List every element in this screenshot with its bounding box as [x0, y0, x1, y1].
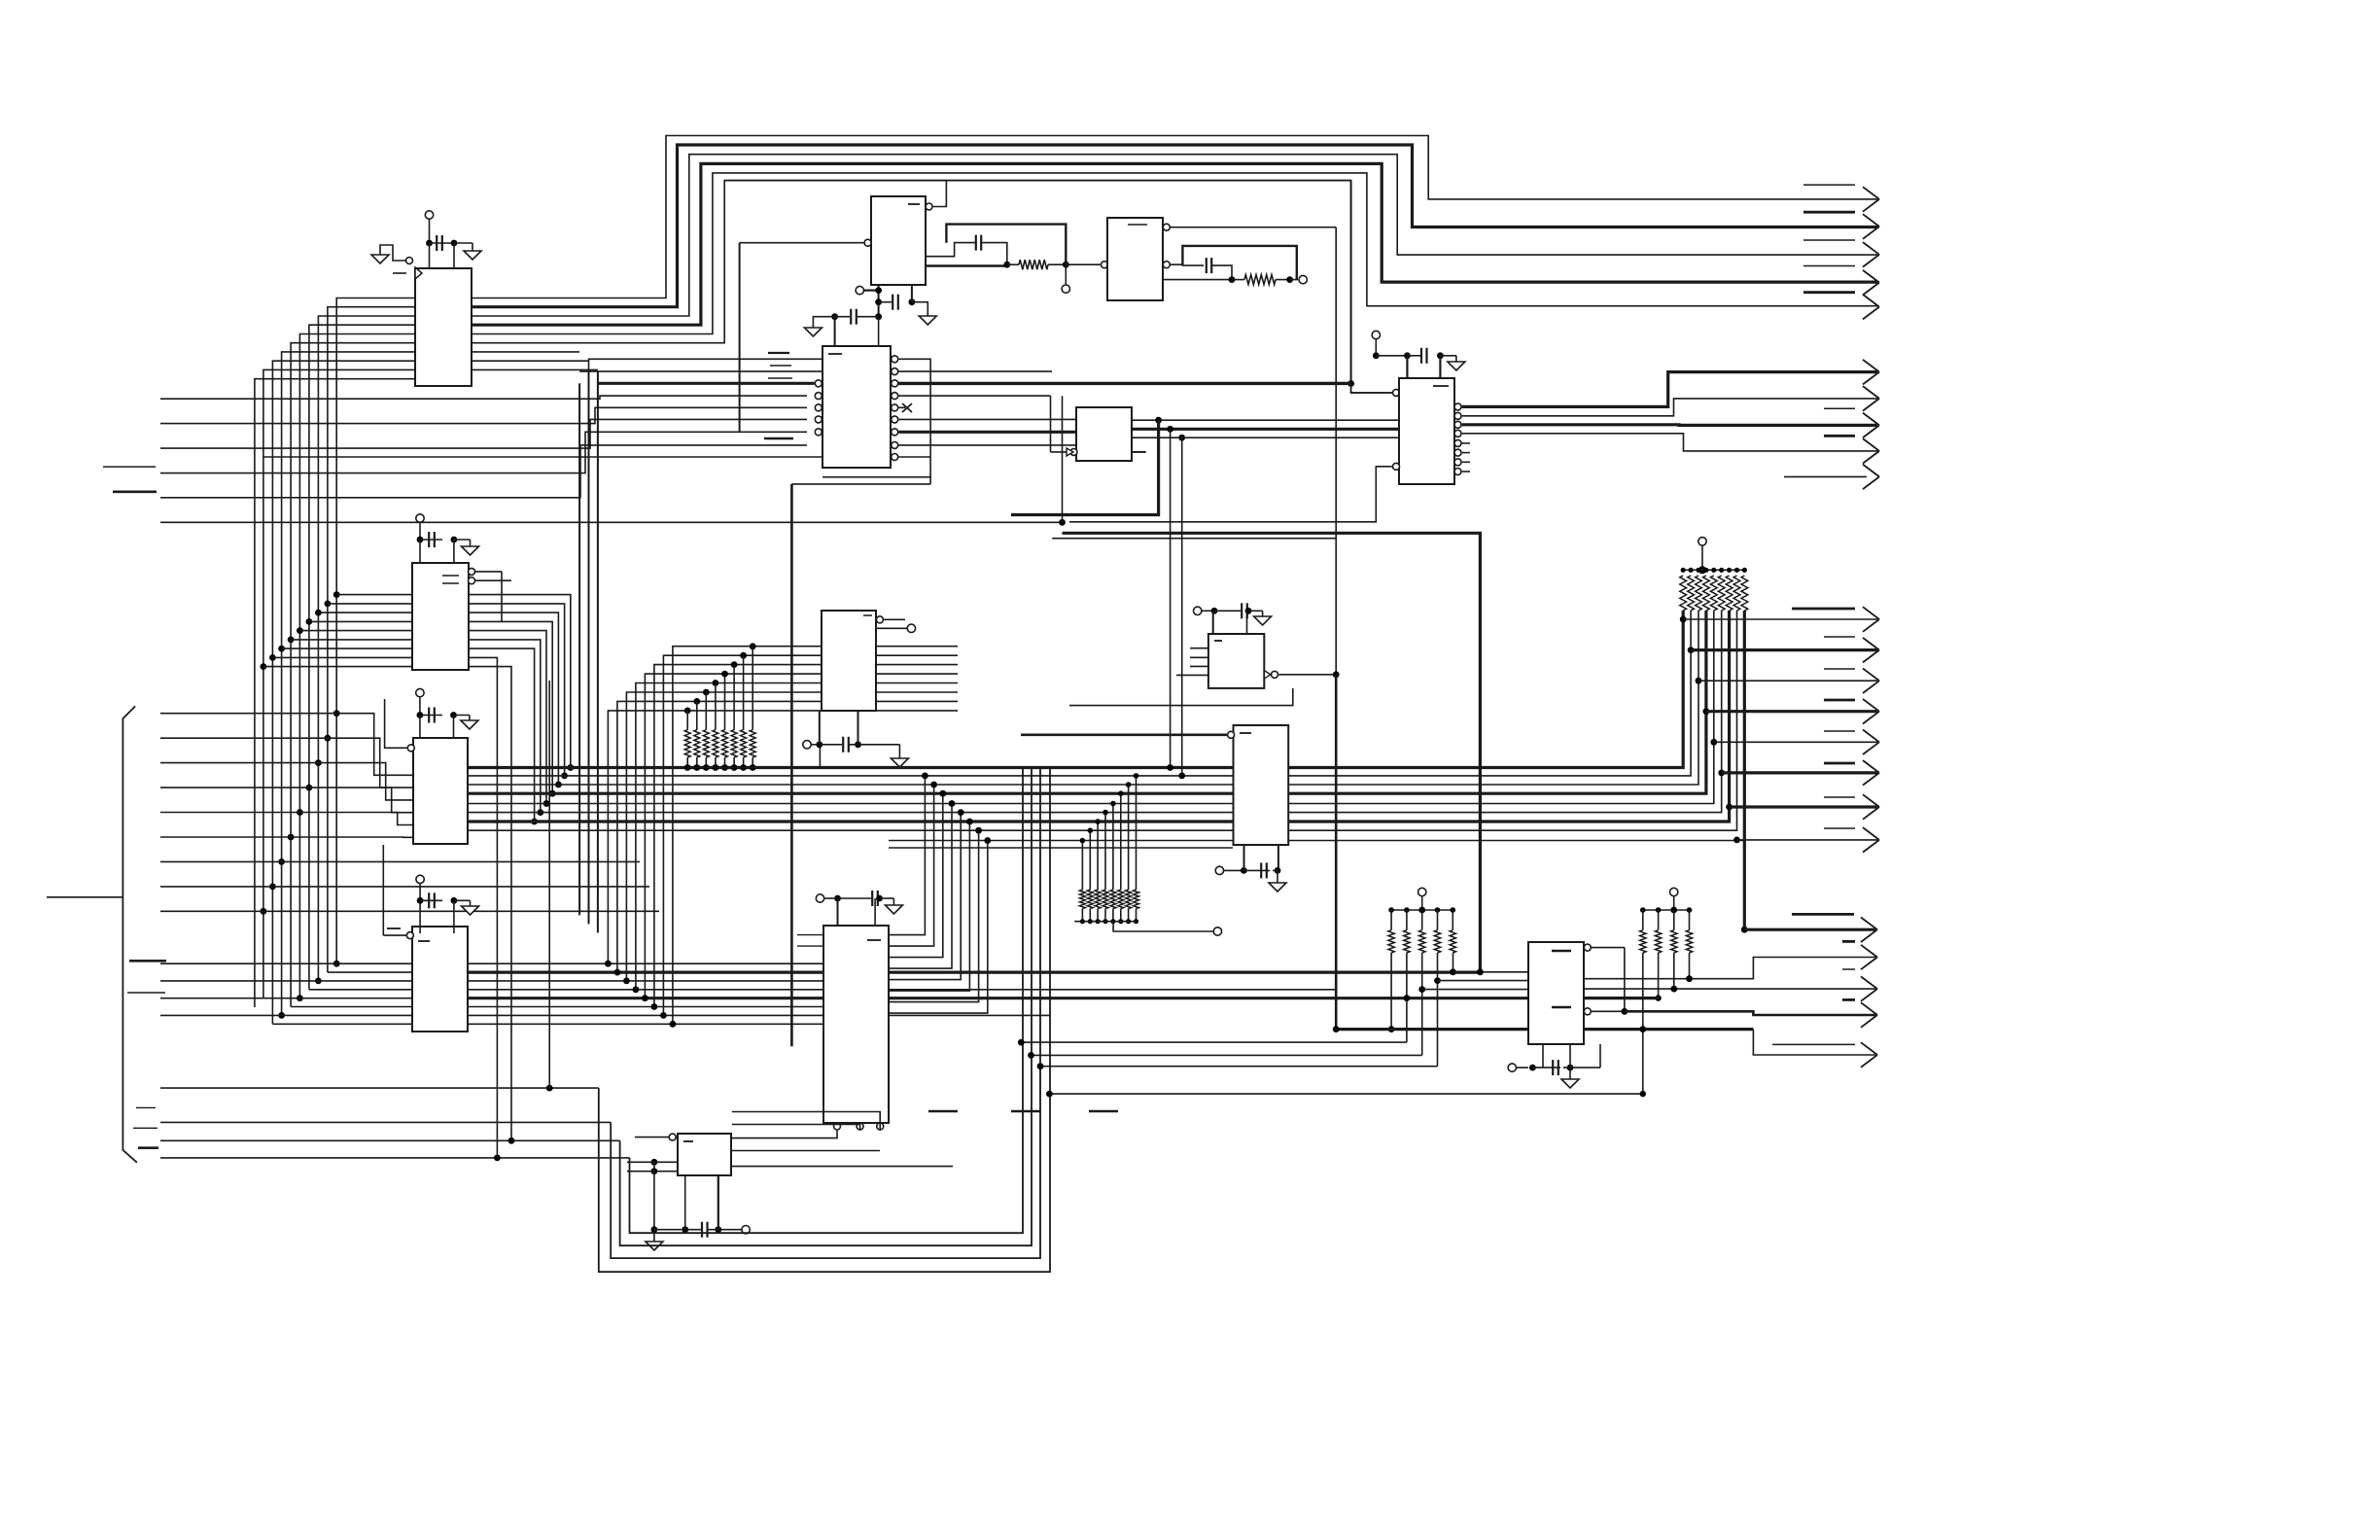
wire RN4-2 stem: [1406, 910, 1408, 930]
wire U5 out7 thick: [898, 431, 1076, 434]
wire U10 east row 5: [1287, 611, 1714, 804]
IC U8: [1399, 378, 1454, 484]
RN3 bottom leg 8: [1134, 909, 1138, 925]
wire C7 legs: [1407, 356, 1440, 378]
wire U14 right row5: [732, 1166, 953, 1168]
wire U3 out 6 to bundle: [469, 640, 541, 813]
wire U5 out2: [898, 370, 1052, 372]
capacitor C11: [834, 891, 893, 906]
junction RN5-2: [1655, 995, 1661, 1000]
wire B1 to U3 pin 1: [336, 594, 412, 596]
junction B1/U3 row 8: [269, 654, 276, 661]
U5 right pin 9: [892, 454, 898, 461]
U8 out pin 4: [1454, 430, 1877, 451]
wire U8 top thick: [891, 382, 1351, 385]
wire bus HB row 1: [468, 766, 1233, 769]
junction B1/connector row 3: [315, 759, 322, 766]
resistor RN3-5: [1110, 890, 1116, 909]
junction bundle row 1: [567, 764, 574, 771]
wire B1 to U3 pin 2: [328, 603, 412, 605]
RN2 top dot 6: [1719, 568, 1724, 573]
wire RN4-2 drop: [1406, 953, 1408, 1042]
U8 out pin 1: [1454, 372, 1877, 410]
wire mid arrow 7: [1730, 794, 1879, 820]
RN2 top dot 9: [1742, 568, 1747, 573]
RN1 bottom leg 4: [713, 757, 719, 771]
resistor RN2-3: [1696, 576, 1702, 611]
RN2 top dot 2: [1689, 568, 1694, 573]
resistor R1: [1019, 260, 1048, 269]
net label bot2: [1842, 940, 1855, 943]
wire mid arrow 8: [1737, 827, 1880, 853]
wire band row 2 west: [328, 971, 412, 973]
wire connector row 4: [160, 787, 309, 788]
wire B1 to U3 pin 9: [263, 666, 412, 668]
wire U1 pin6 to bus B1 line 6: [291, 343, 415, 1007]
wire U7 out stub 6: [876, 691, 958, 693]
wire top bus line6: [724, 180, 1350, 182]
capacitor C7 terminal: [1372, 331, 1380, 356]
wire U5 out3 thick: [898, 382, 1350, 385]
resistor RN3-1: [1079, 890, 1085, 909]
wire RN4-3 drop: [1418, 953, 1425, 1055]
resistor RN1-3: [703, 730, 709, 757]
U6 input: [1051, 396, 1078, 456]
RN2 top dot 8: [1734, 568, 1739, 573]
wire RN5-2 stem: [1658, 910, 1660, 930]
wire U6 drop1 thick: [1011, 420, 1159, 514]
wire U5 out1 wrap: [898, 359, 930, 484]
wire U1 pin9 to bus B1 line 9: [263, 369, 415, 998]
U12 left pin: [387, 928, 413, 939]
U14 left pin top: [635, 1134, 676, 1140]
wire U10 vcc legs: [1244, 845, 1278, 870]
U8 label: [1433, 385, 1449, 387]
junction bundle row 6: [537, 809, 543, 816]
wire connector row 8: [160, 886, 272, 888]
arrow out5: [1863, 295, 1879, 320]
wire U1 pin10 to bus B1 line 10: [255, 379, 415, 1007]
wire U13 out 7: [889, 830, 979, 1001]
arrow bot2 head: [1861, 945, 1877, 969]
U13 bottom pin 1: [732, 1123, 841, 1138]
RN3 bottom leg 3: [1096, 909, 1101, 925]
wire U7 out stub 2: [876, 654, 958, 656]
resistor RN3-3: [1095, 890, 1101, 909]
U9 label: [1214, 640, 1222, 642]
wire U7 out stub 1: [876, 646, 958, 647]
wire connector row 7 east: [282, 860, 640, 862]
wire U6a label: [1128, 224, 1147, 226]
junction bottom row 4: [494, 1155, 501, 1162]
wire x1374 thick drop: [1335, 675, 1338, 1030]
wire connector row 8 east: [272, 886, 649, 888]
capacitor C12: [651, 1222, 751, 1238]
net label: [1803, 211, 1855, 214]
wire mid arrow 2: [1691, 638, 1879, 663]
wire grid column 1: [608, 711, 822, 963]
wire U1 out 4 to arrow: [472, 163, 1877, 325]
U8 out stub 5: [1454, 439, 1470, 446]
capacitor C7: [1373, 348, 1456, 364]
resistor RN1-1: [684, 730, 690, 757]
U15 top-right pin: [1584, 944, 1625, 1011]
junction bundle row 2: [561, 773, 568, 780]
junction U13 out 7: [975, 827, 982, 834]
wire U13 out 6: [889, 822, 969, 991]
wire bus HB row 3: [468, 784, 1233, 786]
junction B1/U3 row 7: [278, 646, 285, 652]
wire U1 pin2 to bus B1 line 2: [328, 307, 415, 972]
wire U5 out8: [898, 444, 1076, 446]
wire U14 right row4: [732, 1150, 880, 1152]
wire U6a out pin: [1163, 262, 1204, 268]
RN2 terminal: [1698, 538, 1706, 575]
wire bus HB row 7: [468, 820, 1233, 822]
wire U3 out 9: [469, 667, 514, 1144]
ground for C2: [462, 546, 479, 555]
resistor RN3-8: [1134, 890, 1139, 909]
U1 vcc wire: [429, 243, 431, 268]
net label mid2: [1824, 636, 1855, 638]
junction RN5-1: [1640, 1091, 1646, 1097]
junction U13 out 8: [984, 837, 991, 844]
U7 right pin2: [876, 624, 916, 632]
RN5 top dot 2: [1656, 907, 1662, 913]
wire low row B: [1028, 1052, 1422, 1059]
wire U3 out 2 to bundle: [469, 604, 565, 776]
wire RN3-4 top: [1104, 813, 1106, 891]
wire y553 thin: [1052, 538, 1336, 540]
wire RN3-5 top: [1112, 804, 1114, 891]
capacitor C14 terminal: [1215, 866, 1241, 874]
junction RN5-3: [1671, 986, 1677, 992]
capacitor C8: [875, 285, 927, 316]
wire U5 wrap lower: [822, 476, 930, 478]
wire bus B2 line 2: [588, 371, 590, 924]
U7 top-right pin: [876, 616, 905, 623]
U5 left pin 4: [815, 393, 822, 400]
IC U10: [1234, 725, 1289, 845]
wire R2 wires: [1232, 279, 1290, 281]
resistor RN4-2: [1404, 930, 1410, 953]
junction RN2 arrow 8: [1733, 837, 1740, 844]
wire RN1-5 stem: [724, 674, 726, 730]
wire U5 out5 nc: [898, 403, 912, 412]
RN4 top dot 2: [1404, 907, 1410, 913]
RN3 terminal: [1213, 927, 1221, 935]
wire C2 left leg: [419, 540, 421, 563]
wire low row D: [1046, 1091, 1643, 1098]
wire x1092 riser: [1062, 396, 1064, 522]
capacitor C6: [1207, 258, 1211, 273]
net label U5d: [764, 437, 793, 439]
wire U6 stub: [1132, 451, 1146, 453]
wire grid column 6: [654, 665, 822, 1007]
RN5 top rail: [1643, 909, 1690, 911]
junction grid column 4: [633, 986, 640, 993]
junction bottom row 1: [546, 1085, 553, 1092]
RN2 top dot 7: [1727, 568, 1732, 573]
junction RN2 arrow 6: [1718, 770, 1725, 777]
junction B1/U3 row 6: [288, 637, 295, 644]
wire U1 pin7 to bus B1 line 7: [282, 352, 415, 1016]
junction B1 line 5 bottom: [297, 995, 303, 1001]
junction U13 out 5: [958, 809, 964, 816]
net label mid3: [1824, 668, 1855, 670]
wire U1 out 9 to B2: [472, 368, 598, 370]
wire U13 out 1: [889, 776, 925, 935]
U10 label: [1240, 732, 1251, 734]
wire connector row 1: [160, 713, 336, 715]
net label: [103, 466, 156, 468]
junction B1 line 1 bottom: [333, 961, 340, 967]
wire U6a out lower: [1163, 279, 1232, 281]
wire U10 east row 8: [1287, 611, 1737, 830]
RN1 top dot 4: [713, 680, 719, 686]
net label bot4: [1842, 998, 1855, 1001]
wire B1 to U3 pin 3: [318, 612, 412, 613]
wire bot arrow1: [1744, 918, 1877, 943]
wire U1 out 3 to arrow: [472, 155, 1877, 316]
ground for C9: [804, 328, 822, 336]
arrow out4: [1863, 270, 1879, 296]
wire U2 bottom pin A: [878, 285, 880, 317]
junction RN2 arrow 4: [1703, 708, 1710, 715]
wire center drop x814: [791, 484, 930, 1046]
wire U2 top-right pin: [926, 181, 946, 210]
U8 pin1 circle: [1393, 389, 1400, 396]
capacitor C4 terminal: [416, 875, 424, 900]
U3 top-right pins: [442, 568, 511, 622]
wire connector bottom row 1: [160, 1087, 599, 1089]
junction RN5-4: [1686, 976, 1692, 982]
RN2 top rail: [1683, 569, 1744, 571]
capacitor C10: [816, 737, 899, 758]
net label mid1: [1792, 608, 1855, 611]
wire U5 in9: [262, 456, 822, 458]
wire U2 out3 upper path: [926, 243, 975, 257]
IC U15: [1528, 942, 1584, 1044]
U8 out stub 8: [1454, 469, 1470, 475]
wire band row 5 east: [468, 997, 1528, 999]
resistor RN4-1: [1388, 930, 1394, 953]
junction U13 out 6: [966, 819, 973, 825]
wire U3 vertical x565: [548, 681, 550, 1088]
wire RN4-4 drop: [1434, 953, 1441, 1067]
junction B1/U3 row 1: [333, 591, 340, 598]
wire U1 enable elbow: [380, 245, 406, 261]
junction B1/connector row 4: [306, 785, 313, 791]
arrow out9: [1863, 438, 1879, 464]
wire RN1-7 stem: [743, 655, 745, 730]
wire connector row 7: [160, 860, 282, 862]
U8 out pin 2: [1454, 399, 1877, 419]
U13 bottom pin 3: [732, 1112, 884, 1131]
wire U2 out4: [926, 264, 1007, 267]
wire C11 legs: [838, 898, 876, 926]
wire RN4-3 stem: [1421, 910, 1423, 930]
wire bus HB row 2: [468, 775, 1233, 777]
wire C5 to node: [982, 243, 1007, 265]
RN2 top dot 1: [1681, 568, 1686, 573]
U5 left pin 6: [815, 416, 822, 423]
RN5 top dot 1: [1640, 907, 1646, 913]
wire RN5-3 drop: [1673, 953, 1675, 989]
junction bundle row 3: [555, 782, 562, 788]
wire arrow5 feed: [1753, 1030, 1877, 1067]
junction R2 left: [1229, 276, 1236, 283]
ground for C3: [461, 720, 478, 729]
RN3 bottom leg 2: [1088, 909, 1093, 925]
wire U9 bottom L: [1069, 688, 1293, 706]
wire loop 1: [599, 768, 1050, 1272]
wire U13 out 8: [889, 841, 988, 1014]
ground for C11: [885, 905, 902, 914]
net label bot5: [1772, 1043, 1855, 1045]
resistor RN2-5: [1710, 576, 1717, 611]
wire B1 to U3 pin 5: [299, 630, 412, 632]
RN3 rail drop: [1113, 922, 1213, 931]
net label mid7: [1824, 796, 1855, 798]
capacitor C9: [831, 309, 882, 325]
capacitor C3 terminal: [416, 688, 424, 715]
wire band row 3 east: [468, 980, 823, 982]
wire band row 5 west: [160, 997, 412, 999]
wire RN3-6 top: [1120, 793, 1122, 890]
wire C15 ground: [1569, 1067, 1571, 1079]
junction bundle row 5: [543, 800, 550, 807]
wire loop 2: [611, 768, 1040, 1258]
RN4 top dot 3: [1419, 907, 1425, 913]
wire C12 ground leg: [653, 1230, 655, 1242]
wire C15 legs: [1543, 1044, 1570, 1067]
RN3 bottom leg 6: [1118, 909, 1123, 925]
wire U6 out2 thick: [1132, 428, 1399, 431]
junction B1/U3 row 2: [325, 601, 332, 608]
wire connector row 5 to U4: [299, 813, 413, 825]
wire RN5-1 stem: [1642, 910, 1644, 930]
net label: [101, 896, 122, 898]
U15 right pin2: [1584, 1008, 1627, 1015]
wire bus HB row 10: [889, 847, 1233, 849]
U5 right pin 1: [892, 356, 898, 363]
junction R2 right: [1286, 276, 1293, 283]
resistor RN2-8: [1733, 576, 1740, 611]
capacitor C2 terminal: [416, 514, 424, 540]
wire input row 1: [160, 396, 807, 399]
wire U10 east row 3: [1287, 611, 1698, 785]
junction row1026/RN4: [1404, 995, 1411, 1001]
junction R1 right: [1063, 262, 1069, 268]
ground for C8: [919, 316, 936, 325]
resistor RN1-5: [722, 730, 728, 757]
RN4 top dot 4: [1435, 907, 1441, 913]
arrow out7: [1863, 386, 1879, 411]
wire RN1-4 stem: [715, 683, 717, 730]
resistor RN2-4: [1703, 576, 1710, 611]
ground U1 enable: [371, 255, 389, 263]
terminal near U2: [856, 286, 882, 294]
capacitor C11 terminal: [816, 894, 834, 902]
wire C14 ground leg: [1277, 870, 1278, 883]
wire R2 terminal: [1290, 275, 1308, 283]
wire U1 pin4 to bus B1 line 4: [309, 325, 415, 990]
net label U13c: [1089, 1110, 1118, 1112]
wire U7 out stub 8: [876, 710, 958, 712]
net label U5c: [768, 377, 792, 379]
wire U15 out right arrow4: [1625, 1002, 1877, 1028]
wire connector row 9 east: [263, 910, 659, 912]
resistor RN1-6: [731, 730, 737, 757]
wire line6 drop to U8: [1350, 181, 1352, 384]
wire U2 feed riser: [739, 243, 741, 433]
wire arrow10 stub: [1784, 475, 1867, 477]
RN1 top dot 3: [703, 689, 710, 696]
wire U13 out 5: [889, 813, 961, 980]
IC U1: [415, 268, 472, 386]
wire U15 thick row 1058a: [1333, 1026, 1528, 1032]
wire U1 pin3 to bus B1 line 3: [318, 316, 415, 981]
junction B1/connector row 8: [269, 884, 276, 891]
wire band row 8 east: [468, 1023, 823, 1025]
wire connector bottom row 3: [160, 1139, 620, 1141]
wire U6 drop2: [1167, 429, 1173, 771]
wire connector row 6: [160, 836, 291, 838]
U6a input pin: [1102, 262, 1108, 268]
wire B1 to U3 pin 4: [309, 620, 412, 622]
wire U14 left drop: [653, 1162, 655, 1229]
wire thin drop x1374: [1335, 227, 1337, 675]
wire U5 in3 thick: [598, 382, 815, 385]
junction RN3-3: [1095, 819, 1101, 824]
RN3 bottom leg 1: [1080, 909, 1085, 925]
wire U15 thick row 1058b: [1584, 1026, 1753, 1032]
wire C4 left leg: [419, 900, 421, 933]
capacitor C13: [1211, 603, 1263, 618]
wire U15 right row 1007: [1584, 958, 1875, 983]
wire RN3-3 top: [1097, 822, 1099, 890]
junction U13 out 1: [922, 773, 928, 780]
wire U8 pin1 jog: [1351, 384, 1392, 393]
wire band row 2 east: [468, 970, 1480, 973]
wire mid arrow 1: [1683, 607, 1879, 632]
wire RN5-1 drop: [1642, 953, 1644, 1094]
U5 label: [828, 353, 842, 355]
wire U13 out 2: [889, 785, 934, 946]
wire RN3-2 top: [1089, 830, 1091, 890]
U8 lower-left pin: [1069, 463, 1400, 522]
junction RN3-2: [1088, 827, 1094, 833]
junction B1 line 3 bottom: [315, 978, 322, 985]
IC U12: [412, 927, 468, 1032]
RN1 top dot 7: [740, 652, 747, 659]
wire input row 4: [160, 432, 807, 472]
IC U2: [871, 196, 926, 285]
wire connector row 3: [160, 762, 318, 764]
wire y548 thick: [1063, 533, 1481, 972]
wire connector row 1 to U4: [336, 714, 413, 776]
ground for C13: [1254, 616, 1272, 625]
arrow out3: [1863, 242, 1879, 267]
junction B1/U3 row 9: [261, 663, 267, 670]
wire bus HB row 8: [468, 829, 1233, 831]
U5 right pin 2: [892, 368, 898, 375]
wire U13 out 3: [889, 793, 943, 957]
U13 bottom pin 2: [732, 1123, 863, 1131]
wire connector bottom row 4: [160, 1157, 630, 1159]
resistor RN5-3: [1671, 930, 1677, 953]
